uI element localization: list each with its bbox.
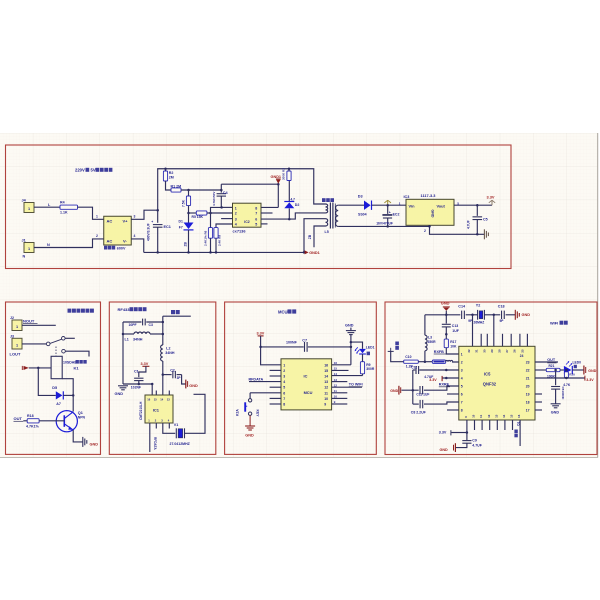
svg-text:GND: GND xyxy=(189,384,198,388)
svg-text:34NH: 34NH xyxy=(133,337,143,341)
svg-text:13: 13 xyxy=(334,378,338,382)
svg-text:IC1: IC1 xyxy=(153,407,160,412)
svg-text:AC: AC xyxy=(107,238,113,243)
svg-text:1: 1 xyxy=(28,247,30,251)
svg-text:MCU: MCU xyxy=(278,309,288,314)
svg-text:15: 15 xyxy=(324,369,328,373)
svg-text:RXRE: RXRE xyxy=(439,383,450,387)
svg-text:2.4K1% R6: 2.4K1% R6 xyxy=(203,230,207,246)
svg-text:GND: GND xyxy=(440,448,449,452)
svg-text:19: 19 xyxy=(526,392,530,396)
svg-text:11: 11 xyxy=(324,391,328,395)
svg-text:K2A: K2A xyxy=(236,409,240,416)
svg-text:3.3V: 3.3V xyxy=(439,431,447,435)
svg-text:1: 1 xyxy=(461,352,463,356)
svg-text:12: 12 xyxy=(324,386,328,390)
svg-text:L2: L2 xyxy=(166,346,170,350)
svg-text:N: N xyxy=(47,243,50,247)
svg-text:GND: GND xyxy=(90,442,99,446)
svg-text:LED0: LED0 xyxy=(573,361,582,365)
svg-text:2: 2 xyxy=(461,360,463,364)
svg-text:13: 13 xyxy=(167,397,170,401)
svg-text:27: 27 xyxy=(505,349,509,353)
svg-text:14: 14 xyxy=(502,414,506,418)
svg-text:+: + xyxy=(151,220,153,224)
svg-text:9: 9 xyxy=(324,403,326,407)
svg-text:26: 26 xyxy=(513,349,517,353)
svg-text:4: 4 xyxy=(134,234,136,238)
svg-text:3.3V: 3.3V xyxy=(586,378,594,382)
svg-text:31: 31 xyxy=(475,349,479,353)
svg-text:CMT2210LH: CMT2210LH xyxy=(139,401,143,420)
svg-text:30: 30 xyxy=(482,349,486,353)
svg-text:2.4K R8: 2.4K R8 xyxy=(218,235,222,246)
svg-text:7: 7 xyxy=(461,400,463,404)
svg-text:RFDATA: RFDATA xyxy=(153,437,157,450)
svg-text:Y2: Y2 xyxy=(476,303,481,307)
svg-text:ZB: ZB xyxy=(308,234,312,239)
svg-text:25: 25 xyxy=(520,349,524,353)
svg-text:EC1: EC1 xyxy=(164,225,171,229)
svg-text:3.3V: 3.3V xyxy=(487,195,495,200)
svg-text:6: 6 xyxy=(283,391,285,395)
svg-text:GND: GND xyxy=(345,324,354,328)
svg-text:V1: V1 xyxy=(174,423,179,427)
svg-text:27.0412MHZ: 27.0412MHZ xyxy=(170,442,191,446)
svg-text:4: 4 xyxy=(461,376,463,380)
svg-text:SS04: SS04 xyxy=(358,213,367,217)
svg-text:5: 5 xyxy=(283,386,285,390)
svg-text:10PF: 10PF xyxy=(129,323,137,327)
svg-text:C2: C2 xyxy=(170,368,175,372)
svg-text:16V/470UF: 16V/470UF xyxy=(376,222,393,226)
svg-text:C10: C10 xyxy=(405,355,411,359)
svg-text:1: 1 xyxy=(283,363,285,367)
svg-text:5V: 5V xyxy=(91,168,96,173)
svg-text:TO WIFI: TO WIFI xyxy=(349,383,363,387)
svg-text:NOUT: NOUT xyxy=(23,318,35,323)
svg-text:14: 14 xyxy=(324,375,328,379)
svg-text:1.1K: 1.1K xyxy=(60,211,68,215)
svg-text:24: 24 xyxy=(520,354,524,358)
svg-text:4: 4 xyxy=(235,222,237,226)
svg-text:C3: C3 xyxy=(149,323,153,327)
svg-text:L1: L1 xyxy=(125,337,129,341)
svg-text:L3: L3 xyxy=(428,335,432,339)
svg-text:F7: F7 xyxy=(179,226,183,230)
svg-text:IC3: IC3 xyxy=(404,195,410,199)
svg-text:GND: GND xyxy=(441,301,450,306)
svg-text:GND: GND xyxy=(588,369,596,373)
svg-text:4.7UF: 4.7UF xyxy=(472,444,482,448)
svg-text:RFDATA: RFDATA xyxy=(249,377,264,381)
svg-text:GND1: GND1 xyxy=(309,251,320,255)
svg-text:14: 14 xyxy=(160,397,163,401)
svg-text:LOUT: LOUT xyxy=(10,351,21,356)
svg-text:12: 12 xyxy=(487,414,491,418)
svg-text:K1: K1 xyxy=(74,366,80,371)
svg-text:C5100NF: C5100NF xyxy=(561,387,565,400)
svg-text:MCU: MCU xyxy=(304,390,313,395)
svg-text:L5: L5 xyxy=(325,230,329,234)
svg-text:18: 18 xyxy=(526,400,530,404)
svg-text:13: 13 xyxy=(494,414,498,418)
svg-text:10SDA8: 10SDA8 xyxy=(63,360,76,364)
svg-text:1: 1 xyxy=(16,325,18,329)
svg-text:8: 8 xyxy=(283,403,285,407)
svg-text:C11 1UF: C11 1UF xyxy=(416,393,429,397)
svg-text:R2: R2 xyxy=(169,171,174,175)
svg-text:8: 8 xyxy=(461,408,463,412)
svg-text:1: 1 xyxy=(28,207,30,211)
svg-text:15: 15 xyxy=(154,397,157,401)
svg-text:15: 15 xyxy=(510,414,514,418)
svg-text:R18: R18 xyxy=(27,414,34,418)
svg-text:D3: D3 xyxy=(358,195,363,199)
svg-text:3.3V: 3.3V xyxy=(141,362,149,366)
svg-text:GND: GND xyxy=(551,410,560,414)
svg-text:IC: IC xyxy=(304,373,308,378)
svg-text:WIFI: WIFI xyxy=(550,320,558,325)
svg-text:GND: GND xyxy=(245,434,254,438)
svg-text:3.3V: 3.3V xyxy=(257,331,265,335)
svg-text:21: 21 xyxy=(526,376,530,380)
svg-text:ZB: ZB xyxy=(184,241,188,246)
svg-text:220V: 220V xyxy=(75,168,85,173)
svg-text:TO: TO xyxy=(516,422,520,427)
svg-text:D2: D2 xyxy=(295,203,300,207)
svg-text:1: 1 xyxy=(16,343,18,347)
svg-text:RF433: RF433 xyxy=(118,307,131,312)
svg-text:V+: V+ xyxy=(123,218,129,223)
svg-text:4: 4 xyxy=(283,380,285,384)
svg-text:15: 15 xyxy=(334,367,338,371)
svg-text:16: 16 xyxy=(324,363,328,367)
svg-text:8: 8 xyxy=(255,206,257,210)
svg-text:QNF32: QNF32 xyxy=(483,382,497,387)
svg-text:23: 23 xyxy=(526,360,530,364)
svg-text:IC5: IC5 xyxy=(484,371,491,376)
svg-text:16: 16 xyxy=(147,397,150,401)
svg-text:IC2: IC2 xyxy=(244,220,249,224)
svg-text:6: 6 xyxy=(461,392,463,396)
svg-text:10K: 10K xyxy=(450,345,457,349)
svg-text:C13: C13 xyxy=(452,324,458,328)
svg-text:17: 17 xyxy=(526,408,530,412)
svg-text:1UF: 1UF xyxy=(452,329,459,333)
svg-text:R5 15K: R5 15K xyxy=(192,215,204,219)
svg-text:C1: C1 xyxy=(134,370,139,374)
svg-text:AC: AC xyxy=(107,218,113,223)
svg-text:LED1: LED1 xyxy=(366,346,375,350)
svg-text:cx7136: cx7136 xyxy=(233,229,247,234)
svg-text:3: 3 xyxy=(461,368,463,372)
svg-text:3: 3 xyxy=(134,215,136,219)
svg-text:1: 1 xyxy=(96,215,98,219)
svg-text:V-: V- xyxy=(123,238,127,243)
svg-text:GND: GND xyxy=(115,392,124,396)
svg-text:C12: C12 xyxy=(411,366,417,370)
svg-text:1: 1 xyxy=(399,202,401,206)
svg-text:10: 10 xyxy=(472,414,476,418)
svg-text:2: 2 xyxy=(424,229,426,233)
svg-text:OUT: OUT xyxy=(547,358,556,362)
svg-text:350R: 350R xyxy=(428,340,437,344)
svg-text:3.3V: 3.3V xyxy=(429,378,437,382)
svg-text:3: 3 xyxy=(235,218,237,222)
svg-text:C14: C14 xyxy=(458,305,466,309)
svg-text:16: 16 xyxy=(334,361,338,365)
svg-text:C7: C7 xyxy=(302,338,307,342)
svg-text:Q1: Q1 xyxy=(78,411,83,415)
svg-text:2: 2 xyxy=(96,234,98,238)
svg-text:J1: J1 xyxy=(22,239,26,243)
svg-text:C9: C9 xyxy=(472,438,477,442)
svg-text:29: 29 xyxy=(490,349,494,353)
svg-text:100NF: 100NF xyxy=(286,340,298,344)
svg-text:5: 5 xyxy=(255,222,257,226)
svg-text:10: 10 xyxy=(324,397,328,401)
svg-text:14: 14 xyxy=(334,372,338,376)
svg-text:12: 12 xyxy=(334,383,338,387)
svg-text:32: 32 xyxy=(467,349,471,353)
svg-text:NPN: NPN xyxy=(78,416,86,420)
svg-text:3: 3 xyxy=(283,375,285,379)
svg-text:GND: GND xyxy=(390,389,398,393)
svg-text:102NF: 102NF xyxy=(131,386,141,390)
svg-text:KEY: KEY xyxy=(256,410,260,418)
svg-text:300K R3: 300K R3 xyxy=(281,168,285,180)
svg-text:OUT: OUT xyxy=(14,416,23,421)
svg-text:16: 16 xyxy=(517,414,521,418)
svg-text:R21: R21 xyxy=(549,364,555,368)
svg-text:11: 11 xyxy=(479,414,483,417)
svg-text:34NH: 34NH xyxy=(165,351,175,355)
svg-text:EC2: EC2 xyxy=(393,212,400,216)
svg-text:1117-3.3: 1117-3.3 xyxy=(421,193,437,198)
svg-text:N: N xyxy=(23,255,26,259)
svg-text:7: 7 xyxy=(283,397,285,401)
svg-text:13: 13 xyxy=(324,380,328,384)
svg-text:1: 1 xyxy=(235,206,237,210)
svg-text:D1: D1 xyxy=(179,219,183,223)
svg-text:10: 10 xyxy=(334,395,338,399)
svg-text:22: 22 xyxy=(526,368,530,372)
svg-text:7: 7 xyxy=(255,211,257,215)
svg-text:+: + xyxy=(389,210,391,214)
svg-text:2M: 2M xyxy=(169,176,174,180)
svg-text:4.7UF: 4.7UF xyxy=(467,220,471,229)
svg-text:R4: R4 xyxy=(60,201,65,205)
svg-text:C5: C5 xyxy=(483,217,488,221)
svg-text:4.7: 4.7 xyxy=(291,197,296,201)
svg-text:C8 2.2UF: C8 2.2UF xyxy=(411,410,427,414)
svg-text:20: 20 xyxy=(526,384,530,388)
svg-text:Vin: Vin xyxy=(409,204,416,209)
svg-text:GND: GND xyxy=(522,313,531,317)
svg-text:2: 2 xyxy=(235,211,237,215)
svg-text:R20: R20 xyxy=(569,372,575,376)
svg-text:400V/3.3UF: 400V/3.3UF xyxy=(146,223,150,241)
svg-text:6: 6 xyxy=(255,218,257,222)
svg-text:GND: GND xyxy=(431,210,435,218)
svg-text:RXFB: RXFB xyxy=(434,350,444,354)
svg-text:D5: D5 xyxy=(52,386,57,390)
svg-text:4.7UF/50V: 4.7UF/50V xyxy=(212,192,216,206)
svg-text:C18: C18 xyxy=(498,305,505,309)
svg-text:5: 5 xyxy=(461,384,463,388)
svg-text:300R: 300R xyxy=(366,367,375,371)
svg-text:26MHZ: 26MHZ xyxy=(474,321,485,325)
svg-text:11: 11 xyxy=(334,389,337,393)
svg-text:2: 2 xyxy=(283,369,285,373)
svg-text:600V: 600V xyxy=(117,246,126,250)
svg-text:28: 28 xyxy=(498,349,502,353)
svg-text:Vout: Vout xyxy=(437,204,446,209)
svg-text:7.5K: 7.5K xyxy=(182,199,186,207)
svg-text:A7: A7 xyxy=(56,402,61,406)
svg-text:R17: R17 xyxy=(450,340,456,344)
svg-text:4.7K1%: 4.7K1% xyxy=(26,424,40,428)
